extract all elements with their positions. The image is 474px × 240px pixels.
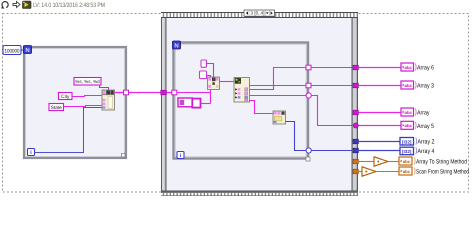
- svg-text:Array 4: Array 4: [418, 148, 435, 155]
- svg-text:Array: Array: [417, 110, 430, 117]
- wire constant to N: [21, 49, 24, 51]
- svg-text:100000: 100000: [5, 48, 20, 54]
- sequence left tunnel (input): [161, 90, 167, 95]
- wire State to node: [64, 106, 103, 107]
- indicator Scan From String Method: [399, 167, 469, 176]
- sequence selector label: [244, 10, 275, 17]
- svg-text:City: City: [61, 94, 70, 100]
- svg-text:%s, %s, %d: %s, %s, %d: [75, 79, 100, 84]
- wire node2 out D to node3: [250, 101, 274, 114]
- svg-text:abc: abc: [403, 169, 411, 174]
- wire node2 out C (row y=85) straight to seq tunnel: [250, 85, 352, 87]
- tunnel on inner loop left border: [172, 90, 177, 95]
- indicator Array 5: [401, 121, 434, 130]
- svg-text:Array 6: Array 6: [417, 65, 434, 72]
- indicator Array 4: [400, 147, 435, 155]
- svg-text:Array 2: Array 2: [418, 139, 435, 146]
- wire to Array 3: [358, 85, 401, 87]
- stacked sequence structure frame: [161, 12, 358, 196]
- iteration terminal i (left loop): [28, 149, 35, 157]
- sequence right tunnels: [353, 65, 358, 70]
- svg-text:abc: abc: [405, 83, 413, 88]
- top film band: [161, 12, 358, 18]
- left band: [161, 12, 167, 196]
- wire City to node: [72, 96, 102, 97]
- wire to conversion triangle 1: [358, 161, 374, 163]
- conversion triangle 1: [374, 157, 388, 166]
- resize handle: [122, 154, 126, 158]
- wire to node1 top: [207, 64, 214, 78]
- tunnel inner loop right border (row A): [306, 65, 311, 70]
- wire to conversion triangle 2: [358, 171, 362, 173]
- right band: [352, 12, 359, 196]
- tunnel inner loop right border (row C): [306, 83, 311, 88]
- svg-text:Scan From String Method: Scan From String Method: [416, 169, 469, 176]
- string constant (small, inner loop): [201, 60, 207, 67]
- indicator Array To String Method: [399, 157, 467, 166]
- svg-text:abc: abc: [403, 159, 411, 164]
- svg-text:[I32]: [I32]: [402, 140, 412, 145]
- svg-text:State: State: [51, 105, 63, 111]
- toolbar LV snippet icon: [23, 1, 32, 9]
- svg-text:[I32]: [I32]: [402, 149, 412, 154]
- wire to Array 2: [358, 141, 400, 143]
- node 3 (array to spreadsheet string): [273, 111, 286, 124]
- wire i to node: [35, 108, 103, 153]
- loop count terminal N (inner loop): [173, 41, 181, 50]
- svg-text:N: N: [174, 43, 178, 50]
- wire array constant to node1: [201, 103, 211, 105]
- string constant City: [59, 93, 73, 100]
- wire to Array 6: [358, 67, 401, 69]
- wire node2 out A (row y=89.5 up to y=67): [250, 68, 352, 90]
- indicator Array 3: [401, 81, 434, 90]
- array constant (inner loop) index box: [178, 98, 192, 107]
- wire node1 to node2: [220, 81, 235, 83]
- wire node3 blue output: [286, 122, 307, 151]
- indicator Array 6: [401, 63, 434, 72]
- wire to Array 5: [358, 125, 401, 127]
- svg-text:3 [0..4]: 3 [0..4]: [251, 11, 265, 16]
- node 1 (spreadsheet string to array): [208, 77, 220, 90]
- wire to Array: [358, 112, 401, 114]
- toolbar forward arrow icon: [13, 2, 20, 8]
- indexing tunnel (circle, blue) inner loop right border: [306, 148, 311, 153]
- wire node output to loop tunnel: [115, 92, 125, 94]
- svg-text:Array 3: Array 3: [417, 83, 434, 90]
- wire sequence tunnel to inner loop tunnel: [166, 92, 172, 94]
- svg-text:LV: 14.0 10/13/2016 2:48:53 PM: LV: 14.0 10/13/2016 2:48:53 PM: [33, 2, 105, 9]
- tunnel on left loop border: [124, 90, 129, 95]
- wire to node1 left: [207, 76, 211, 79]
- svg-text:N: N: [25, 47, 29, 54]
- iteration terminal i (inner loop): [177, 152, 184, 160]
- wire to Array 4: [358, 150, 400, 152]
- node 2 (scan from string, expanded): [234, 78, 250, 103]
- string constant State: [49, 104, 64, 111]
- svg-text:abc: abc: [405, 110, 413, 115]
- wire node2 out B (row y=95.5, indexing tunnel, jog down): [250, 95, 307, 97]
- toolbar undo icon: [1, 2, 8, 9]
- svg-text:abc: abc: [405, 123, 413, 128]
- loop count terminal N (left loop): [24, 46, 32, 55]
- wire label to node: [100, 85, 109, 90]
- string constant (second, inner loop): [200, 71, 207, 79]
- format string label "%s, %s, %d": [74, 78, 101, 86]
- format into string node (left loop): [102, 90, 115, 110]
- numeric constant 100000: [3, 46, 21, 55]
- svg-text:Array 5: Array 5: [417, 123, 434, 130]
- wire into node 1 (lower input): [177, 93, 211, 104]
- bottom film band: [161, 191, 358, 197]
- svg-text:Array To String Method: Array To String Method: [416, 159, 467, 166]
- conversion triangle 2: [362, 167, 376, 176]
- for loop (left) frame: [24, 47, 126, 158]
- VI snippet dashed border: [3, 14, 469, 193]
- array constant element box: [192, 99, 200, 108]
- for loop (inner) frame: [174, 43, 311, 162]
- svg-text:abc: abc: [405, 65, 413, 70]
- indicator Array 2: [400, 138, 435, 146]
- indexing tunnel (circle) inner loop right border: [306, 93, 311, 98]
- wire loop tunnel to sequence tunnel: [129, 92, 162, 94]
- indicator Array: [401, 108, 430, 117]
